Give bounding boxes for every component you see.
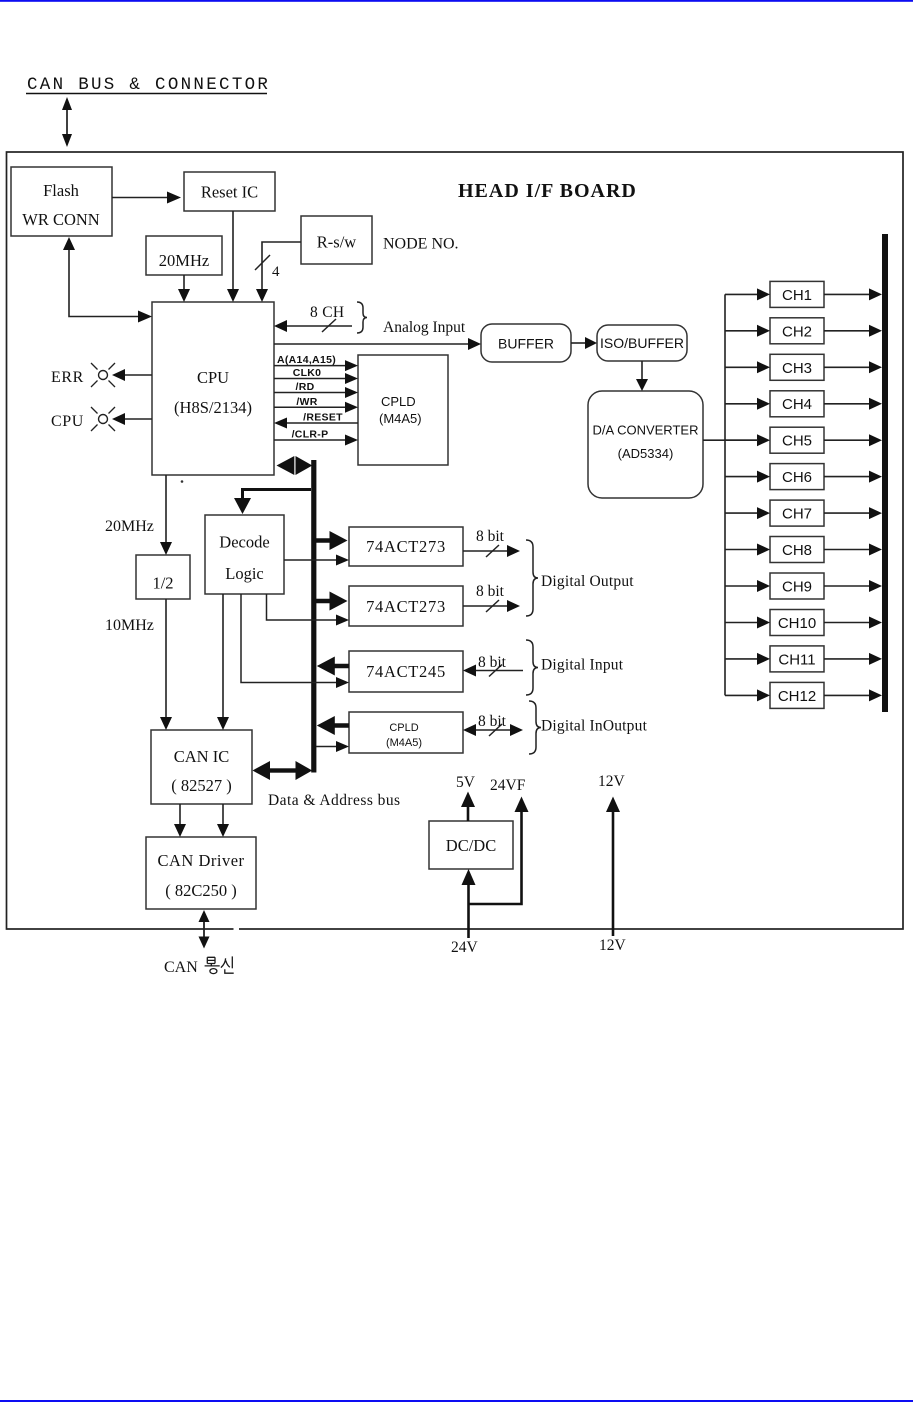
block CH10 (770, 610, 824, 636)
wire buffer to iso/buffer (571, 337, 597, 349)
svg-text:ISO/BUFFER: ISO/BUFFER (600, 335, 684, 351)
wire signal /RESET (274, 412, 358, 429)
block CAN Driver 82C250 (146, 837, 256, 909)
wire CH6 to output bar (824, 471, 882, 483)
block CH5 (770, 427, 824, 453)
dot artifact (181, 480, 184, 483)
svg-text:74ACT245: 74ACT245 (366, 662, 446, 681)
wire signal /WR (274, 396, 358, 413)
svg-text:1/2: 1/2 (152, 574, 173, 593)
svg-text:( 82C250 ): ( 82C250 ) (165, 881, 237, 900)
svg-text:8 bit: 8 bit (476, 528, 505, 545)
svg-text:20MHz: 20MHz (105, 518, 154, 535)
wire CH feeder vertical bus (724, 294, 726, 695)
wire CH7 to output bar (824, 507, 882, 519)
block Decode Logic (205, 515, 284, 594)
label CAN tongsin (164, 959, 198, 976)
wire CAN IC to driver left (174, 804, 186, 837)
block D/A CONVERTER AD5334 (588, 391, 703, 498)
wire signal /RD (274, 381, 358, 398)
svg-text:CAN BUS & CONNECTOR: CAN BUS & CONNECTOR (27, 75, 270, 95)
block CPLD M4A5 (358, 355, 448, 465)
bus thick arrow to 74ACT273 no1 (316, 531, 348, 550)
wire feeder to CH10 (725, 617, 770, 629)
wire 8bit inoutput row (463, 713, 523, 736)
wire feeder to CH8 (725, 544, 770, 556)
power 12V arrow (598, 773, 627, 954)
wire reset to cpu (227, 211, 239, 302)
wire r-s/w to cpu with width 4 (255, 242, 301, 302)
thick bus cpu double arrow (277, 456, 313, 475)
wire feeder to CH2 (725, 325, 770, 337)
wire cpu to buffer (274, 338, 481, 350)
wire CAN driver to CAN bus connector (199, 910, 210, 949)
svg-text:(M4A5): (M4A5) (386, 737, 422, 749)
svg-text:24VF: 24VF (490, 777, 526, 794)
wire feeder to CH1 (725, 288, 770, 300)
svg-text:CAN IC: CAN IC (174, 747, 229, 766)
block 74ACT245 (349, 651, 463, 692)
svg-text:D/A CONVERTER: D/A CONVERTER (593, 423, 699, 438)
svg-text:( 82527 ): ( 82527 ) (171, 776, 232, 795)
brace digital input (526, 640, 538, 695)
wire 20mhz to cpu (178, 275, 190, 302)
svg-text:Flash: Flash (43, 181, 80, 200)
svg-text:10MHz: 10MHz (105, 617, 154, 634)
svg-text:CH6: CH6 (782, 469, 812, 486)
svg-text:Digital Input: Digital Input (541, 657, 624, 674)
svg-text:5V: 5V (456, 774, 476, 791)
block CH2 (770, 318, 824, 344)
block CAN IC 82527 (151, 730, 252, 804)
wire iso/buffer to d/a (636, 361, 648, 391)
svg-text:Logic: Logic (225, 564, 264, 583)
wire CAN bus double arrow (62, 97, 72, 147)
svg-text:8 CH: 8 CH (310, 304, 344, 321)
wire CH1 to output bar (824, 288, 882, 300)
svg-text:NODE NO.: NODE NO. (383, 236, 459, 253)
svg-text:24V: 24V (451, 939, 479, 956)
svg-text:CPU: CPU (197, 368, 229, 387)
LED CPU (51, 407, 152, 431)
block DC/DC (429, 821, 513, 869)
svg-text:74ACT273: 74ACT273 (366, 537, 446, 556)
wire 1/2 to CAN IC (160, 599, 172, 730)
wire CH9 to output bar (824, 580, 882, 592)
svg-text:ERR: ERR (51, 369, 84, 386)
bottom border gap artifact (234, 927, 240, 931)
svg-text:CH7: CH7 (782, 506, 812, 523)
wire feeder to CH5 (725, 434, 770, 446)
svg-text:/CLR-P: /CLR-P (292, 429, 329, 441)
wire bus to CPLD small (316, 741, 349, 752)
wire D/A to CH5 feeder (703, 439, 758, 441)
svg-text:CH4: CH4 (782, 396, 812, 413)
wire decode to 74ACT273 no1 (284, 555, 349, 566)
wire feeder to CH6 (725, 471, 770, 483)
svg-text:(H8S/2134): (H8S/2134) (174, 398, 252, 417)
thick data bus vertical (311, 460, 316, 773)
svg-text:20MHz: 20MHz (159, 251, 209, 270)
svg-text:CH1: CH1 (782, 287, 812, 304)
wire CAN IC to driver right (217, 804, 229, 837)
block CPU H8S/2134 (152, 302, 274, 475)
wire cpu to 1/2 (160, 475, 172, 555)
svg-text:DC/DC: DC/DC (446, 836, 496, 855)
svg-text:A(A14,A15): A(A14,A15) (277, 354, 336, 366)
svg-text:/RESET: /RESET (303, 412, 343, 424)
block Reset IC (184, 172, 275, 211)
svg-text:74ACT273: 74ACT273 (366, 597, 446, 616)
wire feeder to CH7 (725, 507, 770, 519)
svg-text:CPLD: CPLD (389, 722, 418, 734)
svg-text:Reset IC: Reset IC (201, 183, 258, 202)
svg-text:12V: 12V (598, 773, 626, 790)
svg-text:4: 4 (272, 264, 280, 280)
svg-text:BUFFER: BUFFER (498, 336, 554, 352)
block CH12 (770, 682, 824, 708)
wire signal /CLR-P (274, 429, 358, 446)
wire analog input 8 CH (274, 302, 466, 336)
svg-text:CH12: CH12 (778, 688, 816, 705)
block 74ACT273 no2 (349, 586, 463, 626)
wire CH8 to output bar (824, 544, 882, 556)
brace digital output (526, 540, 538, 616)
svg-text:CAN: CAN (164, 959, 198, 976)
svg-text:CH8: CH8 (782, 542, 812, 559)
block CH6 (770, 464, 824, 490)
CPLD small thick arrow to bus (317, 716, 349, 735)
svg-text:Decode: Decode (219, 533, 269, 552)
wire CH11 to output bar (824, 653, 882, 665)
svg-text:8 bit: 8 bit (478, 654, 507, 671)
wire CH10 to output bar (824, 617, 882, 629)
LED ERR (51, 363, 152, 387)
analog output bus bar (882, 234, 888, 712)
block CH8 (770, 537, 824, 563)
wire feeder to CH12 (725, 689, 770, 701)
wire CH4 to output bar (824, 398, 882, 410)
wire CH3 to output bar (824, 361, 882, 373)
svg-text:CPU: CPU (51, 413, 84, 430)
wire decode to 74ACT245 (241, 594, 349, 688)
board outline HEAD I/F BOARD (7, 152, 904, 929)
wire 8bit output row2 (463, 583, 520, 612)
74ACT245 thick arrow to bus (317, 657, 349, 676)
wire feeder to CH4 (725, 398, 770, 410)
svg-text:CLK0: CLK0 (293, 367, 322, 379)
block CPLD M4A5 small (349, 712, 463, 753)
svg-text:/RD: /RD (296, 381, 315, 393)
svg-text:CH2: CH2 (782, 323, 812, 340)
wire feeder to CH9 (725, 580, 770, 592)
block CH4 (770, 391, 824, 417)
svg-text:R-s/w: R-s/w (317, 233, 357, 252)
block Flash WR CONN (11, 167, 112, 236)
block ISO/BUFFER (597, 325, 687, 361)
svg-text:CH10: CH10 (778, 615, 816, 632)
wire CH2 to output bar (824, 325, 882, 337)
wire 8bit input row (463, 654, 523, 677)
power 5V arrow (456, 774, 476, 821)
svg-text:CH9: CH9 (782, 579, 812, 596)
block 1/2 divider (136, 555, 190, 599)
svg-text:Analog Input: Analog Input (383, 319, 466, 336)
wire 8bit output row1 (463, 528, 520, 557)
label Korean sin (221, 956, 234, 973)
svg-text:Data & Address bus: Data & Address bus (268, 792, 401, 809)
wire feeder to CH11 (725, 653, 770, 665)
label Korean tong (205, 957, 220, 973)
svg-text:12V: 12V (599, 937, 627, 954)
wire CH12 to output bar (824, 689, 882, 701)
svg-text:CAN Driver: CAN Driver (157, 851, 244, 870)
svg-text:(AD5334): (AD5334) (618, 446, 674, 461)
brace digital inoutput (529, 701, 541, 754)
block CH7 (770, 500, 824, 526)
wire cpu to flash loop (63, 237, 152, 323)
svg-text:CH3: CH3 (782, 360, 812, 377)
thick bus to decode logic (234, 490, 311, 515)
block 20MHz oscillator (146, 236, 222, 275)
bus thick arrow to 74ACT273 no2 (316, 592, 348, 611)
bottom blue rule (0, 1400, 913, 1402)
wire decode to CAN IC (217, 594, 229, 730)
svg-text:CH5: CH5 (782, 433, 812, 450)
wire flash to reset (112, 192, 181, 204)
svg-text:(M4A5): (M4A5) (379, 411, 422, 426)
svg-text:CH11: CH11 (778, 651, 815, 668)
svg-text:WR CONN: WR CONN (22, 210, 100, 229)
top blue rule (0, 0, 913, 2)
svg-text:/WR: /WR (296, 396, 317, 408)
block BUFFER (481, 324, 571, 362)
block CH11 (770, 646, 824, 672)
svg-text:HEAD I/F BOARD: HEAD I/F BOARD (458, 180, 637, 202)
node CAN BUS & CONNECTOR title (26, 75, 270, 95)
power 24V to DC/DC (451, 777, 529, 956)
svg-text:8 bit: 8 bit (476, 583, 505, 600)
wire signal CLK0 (274, 367, 358, 384)
block 74ACT273 no1 (349, 527, 463, 566)
svg-text:Digital InOutput: Digital InOutput (541, 718, 648, 735)
svg-text:CPLD: CPLD (381, 394, 416, 409)
svg-text:Digital Output: Digital Output (541, 573, 634, 590)
block R-s/w (301, 216, 372, 264)
svg-text:8 bit: 8 bit (478, 713, 507, 730)
block CH1 (770, 281, 824, 307)
wire feeder to CH3 (725, 361, 770, 373)
wire decode to 74ACT273 no2 (267, 594, 350, 626)
block CH3 (770, 354, 824, 380)
wire signal A(A14,A15) (274, 354, 358, 371)
thick bus CAN IC double arrow (253, 761, 313, 780)
wire CH5 to output bar (824, 434, 882, 446)
block CH9 (770, 573, 824, 599)
